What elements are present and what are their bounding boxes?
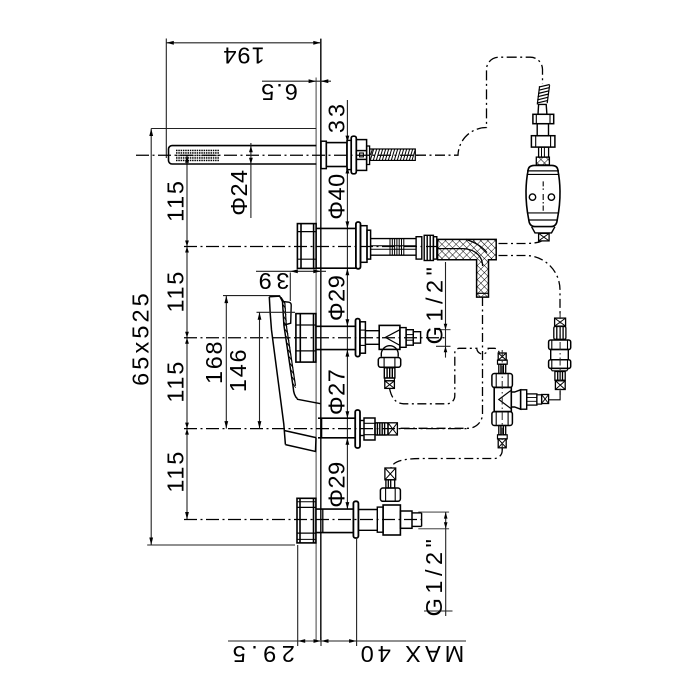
fixture5 outlet tip [412, 513, 422, 527]
dimension 146 [257, 312, 296, 428]
check valve hex top [549, 340, 571, 350]
fixture5 hex nut [297, 498, 316, 543]
svg-text:39: 39 [254, 268, 289, 294]
hand shower spray dots [176, 150, 219, 162]
centerline fixture3 [184, 337, 448, 339]
svg-text:168: 168 [201, 340, 227, 384]
check valve bottom x-box [555, 381, 565, 390]
lever tip [269, 296, 282, 301]
dimension 33 / dia labels shared line [346, 100, 348, 509]
G1/2 label fixture2/3 leader line [436, 262, 451, 358]
hose: elbow outlet down, to fixture4 (path A) [400, 297, 483, 428]
tee top ribbed neck [499, 364, 506, 373]
dimension G1/2 fixture5 [418, 512, 452, 616]
shower head body barrel [526, 165, 560, 226]
dimension 6.5 line [262, 80, 331, 82]
shower holder flange disc [351, 136, 356, 174]
fixture5 right outlet block [400, 511, 412, 528]
dimension 194 arrows [166, 41, 320, 45]
shower head bottom cap [532, 227, 555, 233]
shower head spring [537, 85, 550, 105]
link tee right to check valve bottom [549, 391, 561, 400]
svg-text:G1/2": G1/2" [421, 535, 447, 617]
svg-text:6.5: 6.5 [259, 79, 298, 105]
tee top ring [498, 360, 508, 364]
dimension phi24 line [250, 143, 252, 218]
shower head outlet x-box [539, 233, 550, 241]
fixture3 bottom branch band [385, 378, 395, 381]
centerline fixture4 [184, 428, 470, 430]
lever flag [283, 302, 292, 326]
svg-text:65x525: 65x525 [127, 290, 153, 386]
shower holder hex nut [356, 140, 366, 171]
fixture4 body [318, 418, 355, 438]
shower head hex nut 2 [531, 136, 555, 147]
fixture3 bottom branch ribbed block [384, 368, 395, 378]
fixture5 stem [358, 510, 377, 531]
hose: tee bottom to fixture5 top (path B) [391, 448, 502, 468]
fixture2 shaft thread [390, 239, 404, 256]
check valve centerline [559, 311, 561, 395]
fixture2 flange disc [356, 222, 361, 269]
dimension 168 [223, 296, 280, 429]
hand shower stick body [169, 146, 317, 164]
shower head ribbed neck 3 [539, 147, 549, 157]
tee right branch cone [511, 390, 520, 409]
svg-text:146: 146 [225, 348, 251, 392]
shower head neck 2 [537, 124, 548, 136]
tee bottom ring [498, 435, 508, 439]
lever base dome top edge [297, 399, 321, 404]
lever blade band line [281, 297, 296, 386]
fixture4 ribbed block [375, 423, 388, 435]
fixture5 collar [377, 507, 383, 532]
tee bottom nut [492, 412, 513, 426]
arrows body fixture4 (phi27) [346, 411, 350, 445]
dimension 29.5 and MAX 40 baseline [228, 537, 466, 646]
lever base skirt [284, 431, 316, 452]
fixture5 up branch x-box [385, 468, 396, 480]
check valve ribbed bottom [555, 372, 565, 381]
check valve assembly [555, 318, 566, 326]
centerline fixture1 [136, 154, 420, 156]
hose: elbow to check valve top [499, 256, 561, 318]
dimension phi24 arrows [249, 146, 253, 165]
check valve top x-box [555, 318, 566, 326]
115 chain arrows [185, 155, 189, 519]
svg-text:29.5: 29.5 [227, 641, 295, 667]
fixture4 x-box [388, 423, 397, 435]
centerline fixture5 [184, 519, 421, 521]
fixture2 ribbed hose rings [416, 235, 437, 260]
shower holder body [326, 143, 347, 167]
svg-text:Φ24: Φ24 [226, 169, 252, 215]
wall line back (6.5 plate) [315, 78, 317, 641]
svg-text:G1/2": G1/2" [421, 263, 447, 345]
fixture5 up branch hex [380, 488, 400, 501]
fixture3 bottom branch hex [378, 358, 400, 368]
wall line front [320, 39, 322, 640]
svg-text:Φ29: Φ29 [324, 461, 350, 507]
dimension 65x525 vertical line [147, 129, 316, 546]
tee top x-nipple [498, 353, 506, 360]
fixture2 stem shaft [371, 239, 417, 256]
fixture4 hex nut [364, 418, 375, 440]
dimension 194 line [166, 39, 320, 159]
fixture3 ring block [360, 322, 366, 353]
dimension chain 115 line [186, 155, 188, 519]
svg-text:MAX 40: MAX 40 [357, 641, 465, 667]
fixture5 valve block [383, 505, 400, 535]
fixture3 body [316, 326, 355, 349]
check valve ribbed top [554, 327, 566, 340]
svg-text:115: 115 [162, 450, 188, 493]
svg-text:33: 33 [324, 101, 350, 133]
fixture5 up branch ribbed neck [386, 480, 395, 488]
fixture3 right outlet blocks [400, 328, 421, 348]
shower holder collar [367, 146, 370, 165]
lever blade right edge outer [283, 302, 298, 399]
tee bottom ribbed neck [499, 426, 506, 435]
fixture2 hex nut [297, 224, 316, 269]
tee right branch block [521, 390, 527, 409]
svg-text:194: 194 [222, 42, 264, 68]
shower holder ring [347, 140, 351, 169]
tee body [494, 387, 511, 411]
fixture3 tee valve body [379, 325, 400, 349]
tee top nut [492, 374, 513, 388]
tee right threaded block [527, 394, 537, 405]
fixture4 stem [360, 421, 364, 436]
fixture2 ring block [361, 226, 371, 263]
fixture3 bottom branch dome [381, 346, 398, 357]
svg-text:115: 115 [162, 360, 188, 403]
check valve taper [551, 368, 569, 370]
dimension 65x525 arrows [149, 129, 153, 546]
svg-text:115: 115 [162, 270, 188, 313]
svg-text:Φ40: Φ40 [324, 173, 350, 219]
arrows body fixture1 (33) [346, 136, 350, 174]
centerline fixture2 [184, 246, 438, 248]
fixture3 bottom branch x-box [385, 381, 395, 389]
fixture2 body [316, 228, 356, 268]
check valve middle [551, 350, 569, 360]
fixture3 neck [365, 331, 379, 345]
arrows body fixture5 (phi29) [346, 502, 350, 509]
hose: fixture3 bottom to tee top (path C) [390, 348, 500, 404]
arrows body fixture3 (phi29) [346, 319, 350, 356]
shower holder wall pad [321, 141, 326, 168]
lever hatch band [283, 305, 296, 388]
hose: elbow to shower head bottom [499, 241, 542, 244]
fixture5 flange disc [353, 501, 358, 538]
shower head holes [529, 181, 554, 210]
arrows body fixture2 (phi40) [346, 221, 350, 275]
fixture5 body [316, 509, 354, 532]
fixture4 lever handle blade left edge [269, 296, 320, 445]
svg-text:Φ29: Φ29 [324, 275, 350, 321]
tee centerline [501, 350, 503, 450]
shower head neck above [538, 104, 547, 114]
tee bottom x-nipple [498, 439, 506, 448]
tee right small block [537, 395, 542, 404]
fixture3 flange disc [356, 319, 360, 357]
fixture4 flange disc [355, 410, 360, 448]
svg-text:115: 115 [162, 179, 188, 222]
check valve hex bottom [549, 360, 571, 369]
dimension 6.5 arrows [309, 79, 329, 83]
fixture2 hose elbow (hatched) [438, 239, 497, 297]
svg-text:Φ27: Φ27 [324, 369, 350, 415]
holder threaded rod [370, 149, 416, 160]
shower head hex nut 1 [533, 114, 554, 123]
fixture3 hex nut [296, 314, 316, 363]
dimension 39 [256, 271, 326, 301]
hose: rod to shower head (top) [416, 57, 543, 155]
shower head knurled ring [536, 157, 549, 165]
tee right x-box [542, 395, 549, 404]
